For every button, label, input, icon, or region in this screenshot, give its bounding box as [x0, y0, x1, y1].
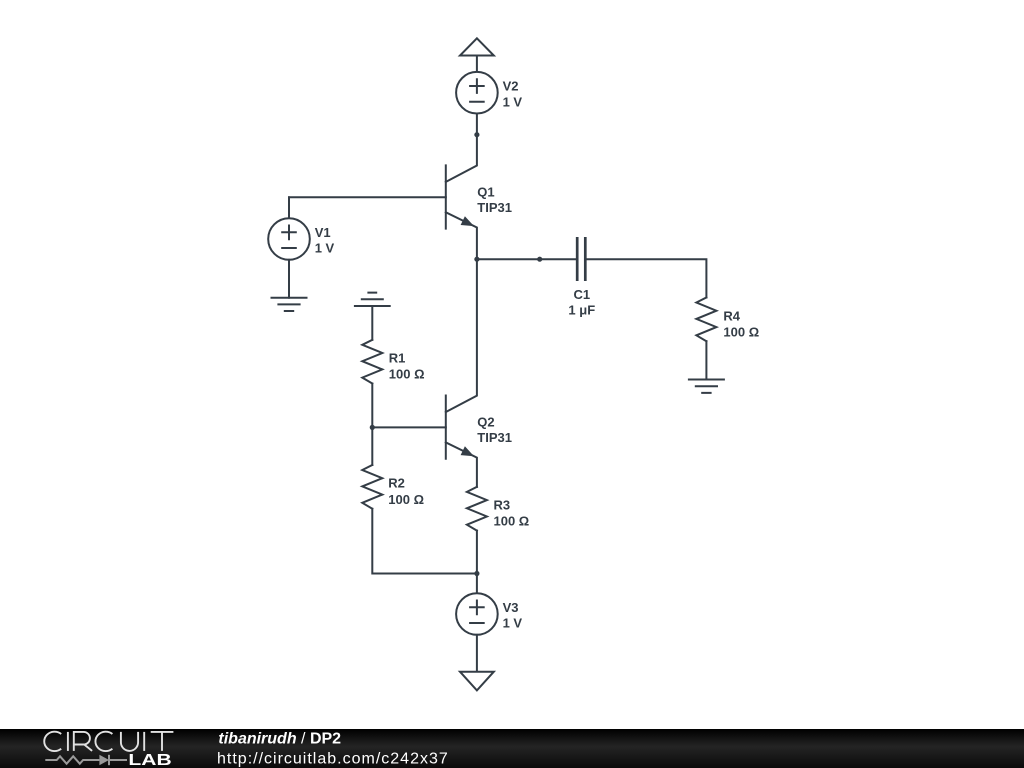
svg-text:C1: C1	[573, 287, 590, 302]
svg-text:100 Ω: 100 Ω	[389, 367, 425, 382]
svg-text:1 V: 1 V	[503, 94, 523, 109]
svg-text:1 V: 1 V	[315, 241, 335, 256]
svg-text:R1: R1	[389, 350, 406, 365]
svg-text:V3: V3	[503, 600, 519, 615]
svg-text:TIP31: TIP31	[477, 430, 512, 445]
svg-text:100 Ω: 100 Ω	[494, 514, 530, 529]
svg-text:R3: R3	[494, 498, 511, 513]
svg-text:100 Ω: 100 Ω	[388, 492, 424, 507]
svg-text:TIP31: TIP31	[477, 200, 512, 215]
svg-text:1 V: 1 V	[503, 616, 523, 631]
svg-text:V1: V1	[315, 225, 331, 240]
svg-text:http://circuitlab.com/c242x37: http://circuitlab.com/c242x37	[217, 751, 449, 768]
svg-text:Q1: Q1	[477, 185, 494, 200]
svg-text:V2: V2	[503, 79, 519, 94]
svg-text:R4: R4	[723, 308, 740, 323]
svg-text:R2: R2	[388, 476, 405, 491]
svg-text:Q2: Q2	[477, 415, 494, 430]
svg-text:1 μF: 1 μF	[568, 303, 595, 318]
svg-text:tibanirudh / DP2: tibanirudh / DP2	[218, 731, 341, 748]
svg-text:LAB: LAB	[128, 750, 171, 768]
svg-text:100 Ω: 100 Ω	[723, 325, 759, 340]
